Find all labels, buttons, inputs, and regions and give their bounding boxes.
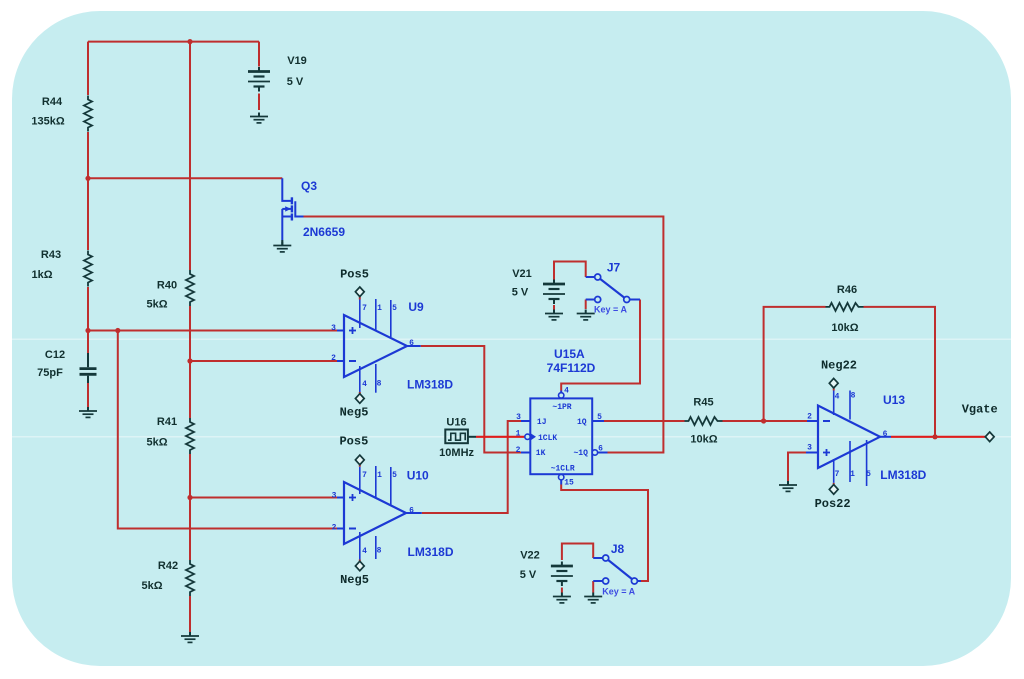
switch J7 (586, 276, 595, 278)
ground under V22 (553, 593, 571, 603)
resistor R43 (84, 251, 92, 287)
wire left vertical R43 to bus3 (87, 287, 89, 331)
svg-text:1kΩ: 1kΩ (31, 269, 52, 281)
svg-text:J7: J7 (607, 261, 621, 275)
svg-text:8: 8 (377, 547, 382, 556)
svg-text:U10: U10 (407, 468, 429, 482)
wire V22 bottom (561, 588, 563, 593)
terminal Neg5 (U9) (355, 394, 364, 404)
wire left vertical R44 to bus2 (87, 132, 89, 178)
svg-text:3: 3 (516, 413, 521, 422)
pin bubble ~1Q (592, 450, 597, 455)
node R45 / feedback (761, 418, 766, 423)
svg-text:75pF: 75pF (37, 367, 63, 379)
wire branch down to U10 minus (118, 331, 337, 529)
svg-text:U13: U13 (883, 393, 905, 407)
faint screen line 1 (12, 339, 1011, 340)
ground under C12 (79, 407, 97, 417)
svg-text:1J: 1J (537, 418, 547, 427)
svg-text:1: 1 (377, 304, 382, 313)
svg-text:Vgate: Vgate (962, 403, 998, 417)
svg-text:3: 3 (331, 324, 336, 333)
svg-text:Key = A: Key = A (602, 587, 635, 597)
svg-text:5: 5 (392, 304, 397, 313)
wire Q3 gate from FF ~1Q (304, 217, 664, 453)
terminal Pos5 (U10) (355, 455, 364, 465)
svg-text:15: 15 (564, 479, 574, 488)
faint screen line 2 (12, 436, 1011, 437)
svg-text:V19: V19 (287, 55, 307, 67)
wire FF 1Q to R45 (604, 420, 685, 422)
pin bubble ~1CLR (559, 475, 564, 480)
svg-text:8: 8 (851, 392, 856, 401)
terminal Pos5 (U9) (355, 287, 364, 297)
svg-text:5 V: 5 V (287, 76, 304, 88)
svg-text:Pos5: Pos5 (339, 434, 368, 448)
capacitor C12 (80, 353, 97, 383)
svg-text:7: 7 (835, 470, 840, 479)
svg-text:5kΩ: 5kΩ (141, 580, 162, 592)
svg-text:C12: C12 (45, 349, 65, 361)
svg-text:5: 5 (866, 470, 871, 479)
ground under Q3 (281, 240, 283, 245)
ground under V19 (250, 113, 268, 123)
svg-text:R46: R46 (837, 284, 857, 296)
svg-text:Key = A: Key = A (594, 305, 627, 315)
ground at U13 plus input (779, 481, 797, 491)
wire Pos5 U10 stub (359, 465, 361, 467)
svg-text:R44: R44 (42, 96, 63, 108)
svg-text:R42: R42 (158, 560, 178, 572)
svg-text:U16: U16 (446, 416, 466, 428)
svg-text:4: 4 (362, 380, 367, 389)
op-amp U13 (806, 391, 891, 487)
svg-text:6: 6 (409, 339, 414, 348)
svg-text:4: 4 (362, 547, 367, 556)
svg-text:1K: 1K (536, 449, 546, 458)
wire C12 top (87, 331, 89, 354)
svg-text:74F112D: 74F112D (547, 361, 596, 375)
svg-text:~1PR: ~1PR (552, 403, 571, 412)
resistor R41 (186, 418, 194, 454)
svg-text:LM318D: LM318D (407, 378, 453, 392)
node mid vertical / U10 plus wire (187, 495, 192, 500)
op-amp U10 (337, 466, 422, 560)
wire V21 to J7 (554, 262, 586, 280)
op-amp U9 (337, 299, 421, 393)
svg-text:~1CLR: ~1CLR (551, 464, 575, 473)
wire U16 to FF 1CLK (476, 436, 525, 438)
wire mid vertical R40 to R41 (189, 306, 191, 418)
svg-text:8: 8 (377, 380, 382, 389)
node mid vertical / U9 minus wire (187, 358, 192, 363)
terminal Pos22 (829, 485, 838, 495)
svg-text:R45: R45 (693, 397, 713, 409)
svg-text:3: 3 (332, 492, 337, 501)
wire J8 pole B to ground (592, 581, 594, 593)
svg-text:R43: R43 (41, 249, 61, 261)
wire bus2 horizontal to Q3 (88, 177, 282, 179)
resistor R45 (685, 417, 723, 425)
wire feedback right vertical (864, 307, 936, 437)
svg-text:Neg22: Neg22 (821, 358, 857, 372)
svg-text:5: 5 (392, 471, 397, 480)
node bus2 / left vertical (85, 176, 90, 181)
svg-text:~1Q: ~1Q (573, 449, 588, 458)
svg-text:10kΩ: 10kΩ (690, 434, 717, 446)
wire Neg22 stub (833, 388, 835, 391)
terminal Neg22 (829, 378, 838, 388)
resistor R40 (186, 270, 194, 306)
svg-text:Q3: Q3 (301, 179, 317, 193)
battery V19 (248, 67, 270, 92)
svg-text:6: 6 (883, 430, 888, 439)
svg-text:LM318D: LM318D (407, 545, 453, 559)
svg-text:2: 2 (807, 413, 812, 422)
svg-text:5: 5 (597, 413, 602, 422)
svg-text:1: 1 (377, 471, 382, 480)
resistor R46 (826, 303, 864, 311)
svg-text:7: 7 (362, 304, 367, 313)
node bus3 / left vertical (85, 328, 90, 333)
wire feedback left vertical (764, 307, 826, 421)
svg-text:1Q: 1Q (577, 418, 587, 427)
wire J7 common to FF pin4 (561, 300, 640, 391)
switch J8 (593, 557, 602, 559)
svg-text:5kΩ: 5kΩ (146, 299, 167, 311)
svg-text:1: 1 (850, 470, 855, 479)
svg-text:4: 4 (835, 393, 840, 402)
svg-text:4: 4 (564, 387, 569, 396)
ground under R42 (181, 632, 199, 642)
svg-text:1: 1 (516, 430, 521, 439)
battery V22 (551, 562, 573, 587)
svg-text:2N6659: 2N6659 (303, 225, 345, 239)
svg-text:Pos5: Pos5 (340, 268, 369, 282)
ground under J8 (584, 593, 602, 603)
svg-text:V21: V21 (512, 268, 532, 280)
svg-text:R41: R41 (157, 416, 177, 428)
wire V19 bottom to ground (258, 94, 260, 111)
pin bubble ~1PR (559, 393, 564, 398)
wire Neg5 U9 stub (359, 392, 361, 394)
clock source U16 (445, 430, 476, 444)
svg-text:U9: U9 (408, 300, 424, 314)
svg-text:U15A: U15A (554, 347, 585, 361)
pin bubble 1CLK (525, 434, 530, 439)
wire V22 to J8 (562, 544, 593, 561)
svg-text:5 V: 5 V (512, 287, 529, 299)
resistor R42 (186, 560, 194, 596)
wire mid to U10 plus (190, 497, 337, 499)
wire U10 out to FF 1J (422, 421, 521, 513)
wire mid vertical R41 to R42 (189, 454, 191, 560)
wire V19 top (258, 42, 260, 67)
svg-text:2: 2 (332, 524, 337, 533)
battery V21 (543, 280, 565, 305)
svg-text:R40: R40 (157, 280, 177, 292)
svg-text:LM318D: LM318D (880, 468, 926, 482)
node bus3 / branch (115, 328, 120, 333)
svg-text:V22: V22 (520, 550, 540, 562)
wire U13 out to Vgate (891, 436, 985, 438)
output terminal Vgate (985, 432, 994, 442)
svg-text:6: 6 (598, 445, 603, 454)
wire mid vertical R42 to ground (189, 596, 191, 633)
flip-flop U15A 74F112D (521, 391, 608, 485)
wire J7 pole B to ground (585, 300, 587, 310)
wire Neg5 U10 stub (359, 560, 361, 562)
wire left vertical bus2 to R43 (87, 178, 89, 250)
wire left vertical upper (to R44) (87, 42, 89, 95)
svg-text:Pos22: Pos22 (815, 497, 851, 511)
wire U9 out to FF 1K (421, 346, 521, 453)
ground under V21 (545, 310, 563, 320)
svg-text:5kΩ: 5kΩ (146, 437, 167, 449)
wire U13 plus to ground (788, 453, 806, 482)
svg-text:2: 2 (516, 446, 521, 455)
wire R45 to U13 minus (723, 420, 808, 422)
wire FF pin15 to J8 (561, 485, 648, 582)
svg-text:2: 2 (331, 354, 336, 363)
transistor Q3 (282, 178, 303, 240)
wire C12 bottom to ground (87, 383, 89, 408)
terminal Neg5 (U10) (355, 561, 364, 571)
svg-text:5 V: 5 V (520, 569, 537, 581)
svg-text:Neg5: Neg5 (340, 405, 369, 419)
wire mid vertical top (189, 42, 191, 270)
svg-text:7: 7 (362, 471, 367, 480)
wire top bus (88, 41, 259, 43)
resistor R44 (84, 96, 92, 132)
svg-text:135kΩ: 135kΩ (31, 116, 64, 128)
svg-text:3: 3 (807, 444, 812, 453)
wire bus3 horizontal to U9 plus (88, 330, 337, 332)
node U13 out / feedback (932, 434, 937, 439)
svg-text:J8: J8 (611, 542, 625, 556)
node top bus / mid vertical (187, 39, 192, 44)
svg-text:Neg5: Neg5 (340, 573, 369, 587)
wire V21 bottom (553, 305, 555, 310)
svg-text:10MHz: 10MHz (439, 447, 474, 459)
wire mid to U9 minus (190, 360, 337, 362)
svg-text:10kΩ: 10kΩ (831, 322, 858, 334)
wire Pos22 stub (833, 483, 835, 485)
wire Pos5 U9 stub (359, 297, 361, 300)
svg-text:6: 6 (409, 507, 414, 516)
ground under J7 (577, 310, 595, 320)
svg-text:1CLK: 1CLK (538, 434, 557, 443)
